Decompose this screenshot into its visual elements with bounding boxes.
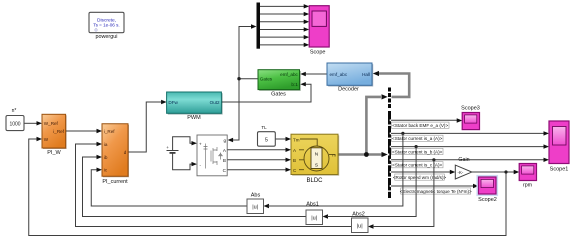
svg-text:ib: ib: [104, 155, 108, 160]
wire bus selector out 4 is_c to Scope1 in3: [391, 159, 545, 161]
svg-text:-K-: -K-: [458, 170, 464, 175]
block Gates: [258, 70, 301, 91]
block Decoder: [327, 63, 373, 87]
arrowheads demux outputs into Scope: [304, 4, 310, 8]
svg-text:W_Ref: W_Ref: [44, 121, 59, 126]
junction dot on is_c wire: [432, 158, 435, 161]
svg-text:|u|: |u|: [311, 215, 317, 221]
svg-text:d: d: [124, 150, 127, 155]
demux bar: [257, 3, 261, 49]
wire bus selector out 5 rotor speed to Gain: [391, 171, 451, 173]
signal label box rotor speed: [393, 174, 447, 180]
junction dot on Gain output wire: [504, 170, 507, 173]
block Abs1: [306, 210, 323, 225]
wire speed feedback Gain junction to PI_W W: [29, 139, 506, 236]
block rpm scope: [519, 164, 536, 181]
block Scope1: [549, 121, 569, 164]
svg-text:W: W: [44, 137, 49, 142]
signal label box is_a: [392, 135, 444, 141]
arrowhead into PI_W W: [37, 137, 43, 141]
wire Abs2 output feedback to PI_current ia: [76, 144, 352, 227]
gain block: [455, 165, 472, 179]
svg-text:Scope: Scope: [310, 50, 326, 56]
svg-text:Tm: Tm: [293, 138, 300, 143]
block Abs: [247, 199, 264, 214]
wire Decoder emf_abc to Gates emf_abc: [305, 73, 327, 75]
wire Gain output to rpm scope: [472, 171, 515, 173]
svg-text:Out2: Out2: [210, 100, 220, 105]
wire Abs output feedback to PI_current ic: [91, 170, 247, 206]
wire battery - to converter -: [173, 153, 193, 170]
arrowhead into PI_current ib: [97, 155, 103, 159]
arrowhead into rpm scope: [514, 170, 520, 174]
wire BLDC m bus to bus selector: [337, 153, 382, 156]
wire n* constant to PI_W W_Ref: [24, 122, 37, 124]
wire bus selector out 1 back EMF to Scope3: [391, 119, 458, 121]
svg-text:emf_abc: emf_abc: [330, 72, 348, 77]
arrowhead into BLDC A: [286, 148, 292, 152]
wire bus branch up to Hall bus selector: [366, 97, 381, 155]
svg-text:Hall: Hall: [362, 72, 370, 77]
wire Abs1 output feedback to PI_current ib: [83, 157, 307, 217]
wire bus selector out 6 torque to Scope2: [391, 185, 474, 187]
svg-text:DFw: DFw: [168, 100, 178, 105]
arrowhead into Gates emf_abc: [300, 72, 306, 76]
svg-text:A: A: [293, 148, 296, 153]
svg-text:BLDC: BLDC: [306, 178, 323, 184]
block PI_W: [42, 114, 67, 149]
svg-text:|u|: |u|: [252, 204, 258, 210]
wire bus selector out 3 is_b to Scope1 in2: [391, 146, 545, 148]
svg-text:TL: TL: [261, 125, 267, 130]
arrowhead into PI_current i_Ref: [97, 129, 103, 133]
svg-text:5: 5: [265, 137, 268, 143]
arrowhead into PWM DFw: [161, 100, 167, 104]
svg-text:Decoder: Decoder: [338, 87, 359, 93]
svg-text:b:1: b:1: [291, 82, 298, 87]
arrowhead into Abs input: [264, 204, 270, 208]
svg-text:ia: ia: [104, 142, 108, 147]
wire demux output 1 to Scope: [260, 5, 305, 7]
svg-text:<Rotor speed wm (rad/s)>: <Rotor speed wm (rad/s)>: [393, 175, 447, 180]
arrowheads into Scope1 inputs: [544, 131, 550, 135]
arrowhead into Scope2: [473, 184, 479, 188]
svg-text:Abs2: Abs2: [352, 212, 365, 218]
svg-text:i_Ref: i_Ref: [53, 129, 64, 134]
wire battery + to converter +: [173, 137, 193, 151]
svg-text:S: S: [315, 162, 318, 168]
svg-text:Abs1: Abs1: [306, 202, 319, 208]
bus selector big: [388, 111, 391, 198]
svg-text:<Stator current is_a (A)>: <Stator current is_a (A)>: [392, 136, 443, 141]
svg-text:<Stator current is_b (A)>: <Stator current is_b (A)>: [392, 149, 443, 154]
signal label box back EMF: [392, 122, 450, 128]
arrowhead into Scope3: [457, 118, 463, 122]
svg-text:N: N: [315, 151, 319, 157]
wire is_b drop to Abs1 input: [327, 147, 416, 217]
block Abs2: [352, 218, 369, 233]
arrowhead into Decoder Hall: [373, 71, 379, 76]
bus wires thick gray: [337, 74, 409, 155]
svg-text:m: m: [332, 153, 336, 158]
svg-text:1000: 1000: [9, 121, 20, 127]
svg-text:Scope1: Scope1: [550, 167, 569, 173]
wire Gates output to converter g: [233, 79, 259, 140]
arrowhead into converter +: [192, 141, 198, 145]
signal label box is_c: [392, 162, 444, 168]
block Scope3: [462, 113, 479, 130]
wire demux output 4 to Scope: [260, 28, 305, 30]
junction dot on is_b wire: [415, 145, 418, 148]
bus selector small (Hall): [388, 88, 391, 109]
svg-text:B: B: [223, 158, 226, 163]
arrowhead bus into Hall selector: [382, 94, 388, 99]
svg-text:g: g: [223, 138, 226, 143]
svg-text:n*: n*: [12, 108, 17, 114]
block PI_current: [102, 124, 129, 178]
svg-text:i_Ref: i_Ref: [104, 129, 115, 134]
notches on bus selector big bar: [388, 119, 391, 191]
constant TL 5: [258, 132, 276, 147]
svg-text:B: B: [293, 158, 296, 163]
svg-text:Gates: Gates: [271, 91, 286, 97]
svg-text:PI_current: PI_current: [102, 179, 128, 185]
wire TL constant to BLDC Tm: [275, 138, 286, 140]
arrowhead into BLDC B: [286, 158, 292, 162]
svg-text:Scope3: Scope3: [461, 106, 480, 112]
signal label box torque: [400, 188, 472, 194]
wire demux output 5 to Scope: [260, 36, 305, 38]
wire converter B to BLDC B: [227, 159, 286, 161]
svg-text:rpm: rpm: [523, 183, 533, 189]
junction dot on is_a wire: [401, 132, 404, 135]
DC source battery: [166, 145, 178, 153]
arrowhead into converter g: [228, 138, 234, 142]
wire demux output 3 to Scope: [260, 21, 305, 23]
block Scope (top): [309, 6, 329, 47]
arrowhead into Abs2 input: [368, 224, 374, 228]
block BLDC motor: [291, 134, 339, 176]
junction dot on m bus: [364, 152, 369, 157]
wire Hall selector output loop to Decoder Hall: [377, 74, 409, 97]
svg-text:powergui: powergui: [96, 34, 118, 40]
svg-text:Abs: Abs: [251, 193, 261, 199]
arrowhead into Gates lower input: [300, 82, 306, 86]
svg-text:<Stator back EMF e_a (V)>: <Stator back EMF e_a (V)>: [392, 123, 448, 128]
wire converter A to BLDC A: [227, 149, 286, 151]
wire is_a drop to Abs input: [268, 133, 403, 206]
powergui block: [89, 12, 124, 32]
wire is_c drop to Abs2 input: [373, 160, 434, 227]
svg-text:Gain: Gain: [458, 157, 469, 163]
signal label box is_b: [392, 148, 444, 154]
arrowhead into BLDC C: [286, 168, 292, 172]
svg-text:|u|: |u|: [357, 223, 363, 229]
arrowhead into BLDC Tm: [286, 137, 292, 141]
arrowhead into PI_W W_Ref: [37, 121, 43, 125]
wire PWM Out2 to Gates lower input (loop): [221, 84, 311, 102]
arrowhead into PI_current ic: [97, 168, 103, 172]
svg-text:+: +: [199, 141, 202, 146]
junction dot on Gates output wire: [237, 77, 240, 80]
wire branch Gates output up to demux: [239, 27, 252, 79]
wire demux output 6 to Scope: [260, 44, 305, 46]
block converter (mosfet bridge): [197, 135, 227, 176]
arrowhead into PI_current ia: [97, 142, 103, 146]
arrowhead into Gain: [450, 170, 456, 174]
arrowhead into Abs1 input: [323, 214, 329, 218]
svg-text:PWM: PWM: [187, 115, 201, 121]
svg-text:<Electromagnetic torque Te (N*: <Electromagnetic torque Te (N*m)>: [400, 189, 472, 194]
block PWM: [167, 92, 223, 115]
svg-text:<Stator current is_c (A)>: <Stator current is_c (A)>: [392, 163, 442, 168]
constant n* 1000: [6, 116, 24, 131]
svg-text:emf_abc: emf_abc: [280, 72, 298, 77]
svg-text:+: +: [166, 145, 169, 150]
arrowhead m bus into bus selector: [382, 152, 388, 157]
svg-text:PI_W: PI_W: [47, 150, 61, 156]
wire bus selector out 2 is_a to Scope1 in1: [391, 132, 545, 134]
wire PI_current d to PWM DFw: [128, 102, 162, 152]
wire converter C to BLDC C: [227, 169, 286, 171]
block Scope2: [477, 176, 497, 196]
arrowhead into converter -: [192, 162, 198, 166]
svg-text:Scope2: Scope2: [478, 197, 497, 203]
arrowhead into demux input: [251, 24, 257, 28]
wire demux output 2 to Scope: [260, 13, 305, 15]
svg-text:Gates: Gates: [260, 77, 273, 82]
wire PI_W i_Ref to PI_current i_Ref: [66, 130, 97, 132]
